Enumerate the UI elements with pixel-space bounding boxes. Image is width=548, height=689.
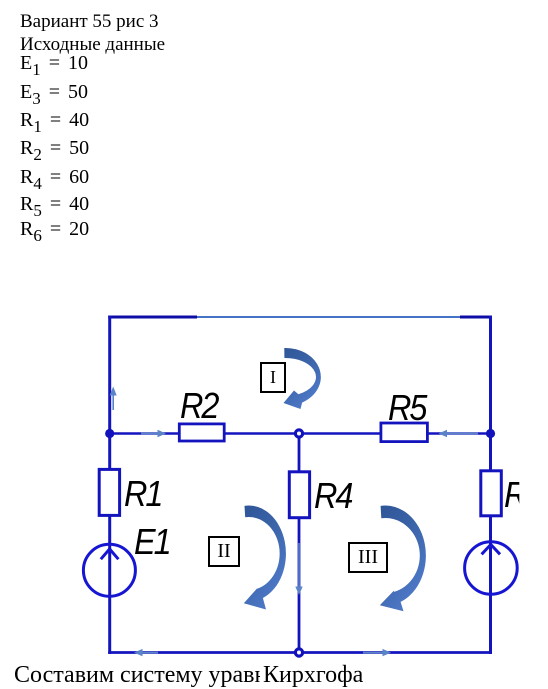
loop label III [348,542,388,573]
resistor R1 [99,469,119,515]
value R2 [20,137,89,160]
EMF source E1 [83,544,135,596]
node middle (middle wire) [295,430,302,437]
wire top right segment [460,316,492,319]
wire middle vertical [298,434,301,655]
value R4 [20,166,89,189]
label E1 [134,524,170,560]
label R1 [124,476,161,512]
title line [20,11,159,33]
current arrow right before R2 [141,430,166,437]
wire bottom [108,651,490,654]
node right (middle wire) [486,429,495,438]
value E3 [20,81,88,104]
wire right vertical [489,316,492,655]
value E1 [20,52,88,75]
wire top left segment [108,316,197,319]
loop arrow III [380,506,426,612]
label R2 [180,388,217,424]
current arrow left on bottom left wire [134,649,158,656]
node left (middle wire) [105,429,114,438]
value R6 [20,218,89,241]
wire left vertical [108,316,111,655]
loop label II [208,536,240,567]
EMF source E3 [465,542,518,595]
loop arrow II [244,506,286,610]
wire middle horizontal [110,432,491,435]
loop arrow I [284,348,321,409]
current arrow down on middle branch [295,543,302,595]
resistor R6 [481,471,502,516]
current arrow right on bottom right wire [363,649,391,656]
label R4 [314,478,351,514]
resistor R5 [381,423,428,442]
resistor R2 [179,424,224,441]
node bottom [295,649,302,656]
label R5 [388,390,425,426]
resistor R4 [289,472,309,518]
loop label I [260,362,286,393]
value R5 [20,193,89,216]
value R1 [20,109,89,132]
current arrow up on left branch [110,387,117,411]
wire top middle (current path) [197,316,460,318]
bottom caption word (clipped) [263,662,363,689]
label R6 (clipped) [504,477,519,513]
current arrow left after R5 [439,430,479,437]
bottom caption (clipped by page edge) [14,662,260,689]
subtitle line [20,34,165,56]
